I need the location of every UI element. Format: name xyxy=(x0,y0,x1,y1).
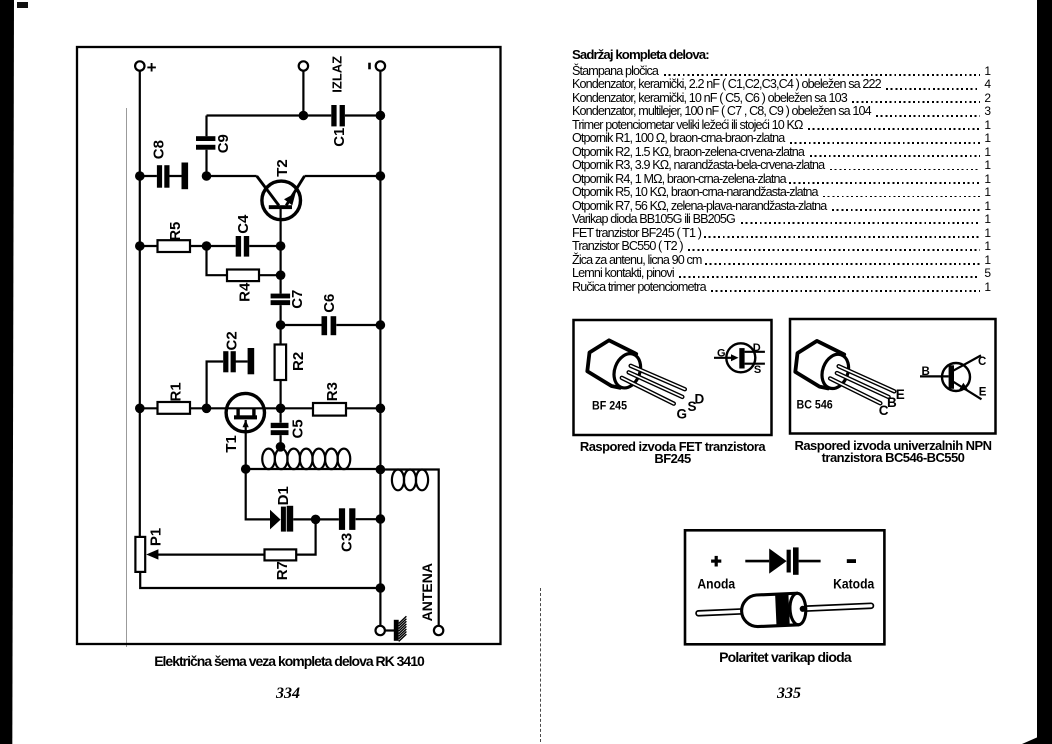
NPN symbol Q1 xyxy=(920,355,987,399)
capacitor C6 xyxy=(322,316,337,335)
resistor R3 xyxy=(313,382,346,416)
svg-text:P1: P1 xyxy=(148,528,165,546)
wire C5 column xyxy=(280,408,282,446)
svg-text:IZLAZ: IZLAZ xyxy=(330,56,345,93)
svg-text:C: C xyxy=(978,356,986,368)
svg-text:Anoda: Anoda xyxy=(697,576,736,592)
svg-text:R3: R3 xyxy=(324,382,341,401)
svg-text:BC 546: BC 546 xyxy=(797,399,833,411)
ground (chassis) symbol xyxy=(394,616,407,641)
capacitor C3 xyxy=(339,508,356,530)
svg-text:R4: R4 xyxy=(237,282,254,302)
antenna terminal xyxy=(434,626,443,635)
scan black bar right edge xyxy=(1037,0,1052,744)
wire ground lead xyxy=(385,629,395,631)
BC546 lead E xyxy=(837,364,897,393)
svg-text:D: D xyxy=(695,392,705,407)
wire output terminal drop xyxy=(302,71,304,116)
capacitor C4 xyxy=(236,236,250,257)
node coil tap xyxy=(276,442,286,452)
svg-text:Katoda: Katoda xyxy=(833,576,875,592)
capacitor C5 xyxy=(271,423,289,435)
transistor T2 (BC550) xyxy=(257,159,305,219)
BF245 lead S xyxy=(627,370,685,399)
capacitor C7 xyxy=(271,294,291,306)
varicap diode symbol xyxy=(745,547,820,574)
inductor L2 (antenna coupling coil) xyxy=(392,470,428,491)
svg-text:R5: R5 xyxy=(167,222,184,241)
wire T2 base lead column xyxy=(280,209,282,326)
svg-text:D1: D1 xyxy=(275,486,292,505)
varicap polarity box xyxy=(685,530,884,644)
wire C8 leads xyxy=(140,175,182,177)
wire T1 source lead xyxy=(245,420,247,469)
svg-text:E: E xyxy=(979,386,987,398)
wire C1 top run xyxy=(207,114,381,116)
caption schematic xyxy=(77,653,501,669)
wire D1 to C3 xyxy=(293,518,339,520)
wire R2 column xyxy=(280,325,282,408)
wire junction nodes xyxy=(135,111,385,593)
capacitor C9 xyxy=(196,136,215,150)
BF245 pinout box xyxy=(574,320,772,435)
terminal IZLAZ (output) xyxy=(299,56,345,93)
svg-text:E: E xyxy=(896,387,905,402)
svg-text:T2: T2 xyxy=(274,159,291,177)
caption varicap box xyxy=(685,649,885,665)
svg-text:R7: R7 xyxy=(274,561,291,580)
svg-text:G: G xyxy=(717,348,726,360)
svg-text:R2: R2 xyxy=(290,352,307,371)
scan smudge bottom right xyxy=(1022,737,1038,744)
svg-text:D: D xyxy=(753,342,761,354)
caption BF245 box xyxy=(570,441,775,465)
svg-text:B: B xyxy=(922,366,930,378)
wire C6 run xyxy=(281,324,381,326)
wire antenna run xyxy=(380,470,438,626)
svg-text:C1: C1 xyxy=(331,128,348,147)
BC546 TO-92 package xyxy=(795,341,853,392)
BF245 lead D xyxy=(629,364,687,391)
page fold line xyxy=(126,108,127,647)
potentiometer P1 (trimmer) xyxy=(135,528,164,572)
page number 335 xyxy=(761,685,817,703)
wire C3 to rail xyxy=(356,518,381,520)
resistor R4 xyxy=(227,270,259,302)
minus sign xyxy=(847,559,856,563)
svg-text:C4: C4 xyxy=(235,214,252,234)
ground terminal xyxy=(376,626,385,635)
BC546 lead C xyxy=(828,376,882,405)
capacitor C1 xyxy=(331,105,345,126)
svg-text:BF 245: BF 245 xyxy=(592,400,627,412)
BC546 pinout box xyxy=(790,319,996,434)
wire C9 column xyxy=(205,116,207,177)
wire T2 emitter run xyxy=(305,175,381,177)
wire right rail xyxy=(379,71,381,626)
svg-text:C2: C2 xyxy=(223,331,240,350)
varicap diode body drawing xyxy=(695,590,874,629)
wire R4 branch xyxy=(207,246,281,275)
wire R5 leads xyxy=(140,245,207,247)
plus sign xyxy=(711,556,721,567)
wire T2 base run xyxy=(207,175,257,177)
caption BC546 box xyxy=(788,440,998,464)
svg-text:C6: C6 xyxy=(321,294,338,313)
svg-text:C9: C9 xyxy=(215,134,232,153)
terminal + (plus supply) xyxy=(135,58,157,77)
capacitor C2 xyxy=(223,348,254,374)
svg-text:S: S xyxy=(754,364,761,376)
wire left rail xyxy=(139,71,141,537)
resistor R7 xyxy=(265,549,297,580)
page number 334 xyxy=(260,685,316,703)
scan black bar left edge xyxy=(0,0,14,744)
svg-text:+: + xyxy=(147,58,157,77)
wire coil base run xyxy=(246,468,381,470)
page gutter dashed line xyxy=(540,588,541,742)
svg-text:ANTENA: ANTENA xyxy=(419,563,435,621)
resistor R5 xyxy=(158,222,191,252)
wire C2 branch xyxy=(207,362,248,409)
wire P1 bottom run xyxy=(140,572,380,588)
resistor R2 xyxy=(275,345,307,381)
transistor T1 (BF245 FET) xyxy=(223,393,265,452)
capacitor C8 xyxy=(157,163,188,190)
diode D1 (varicap BB105G) xyxy=(270,486,293,531)
wire C4 leads xyxy=(207,245,281,247)
scan speck top left xyxy=(17,2,28,8)
BC546 lead B xyxy=(835,371,891,399)
svg-text:T1: T1 xyxy=(223,435,240,453)
svg-text:C8: C8 xyxy=(150,140,167,159)
wire D1 branch xyxy=(246,469,270,519)
FET symbol U1 xyxy=(714,342,765,376)
wire R7 to P1 wiper xyxy=(156,553,265,555)
svg-text:C7: C7 xyxy=(289,290,306,309)
svg-text:R1: R1 xyxy=(167,382,184,401)
svg-text:C3: C3 xyxy=(339,533,356,552)
parts list xyxy=(572,49,991,294)
schematic frame xyxy=(77,47,501,644)
svg-text:C5: C5 xyxy=(289,419,306,438)
terminal - (minus supply) xyxy=(368,61,385,70)
BF245 lead G xyxy=(620,376,676,406)
svg-text:C: C xyxy=(879,403,889,418)
resistor R1 xyxy=(158,382,191,413)
wire R7 branch xyxy=(296,519,315,554)
svg-text:G: G xyxy=(677,407,688,422)
wire gate run y408 xyxy=(140,407,381,409)
inductor L1 (tapped coil) xyxy=(262,449,350,470)
BF245 TO-92 package xyxy=(587,340,645,391)
